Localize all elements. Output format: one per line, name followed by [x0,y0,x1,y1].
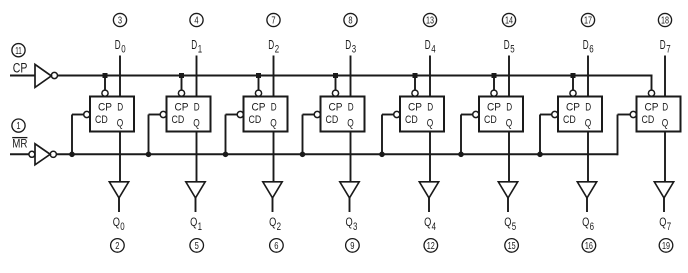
svg-text:CP: CP [252,101,266,113]
svg-text:CP: CP [98,101,112,113]
svg-text:4: 4 [194,16,198,27]
svg-text:CP: CP [175,101,189,113]
svg-text:Q: Q [585,117,592,129]
svg-text:18: 18 [661,16,669,27]
svg-text:5: 5 [510,44,514,56]
svg-text:9: 9 [350,241,354,252]
svg-text:6: 6 [274,241,278,252]
svg-text:Q: Q [504,215,511,229]
svg-text:12: 12 [427,241,435,252]
svg-text:CD: CD [249,114,262,126]
svg-text:Q: Q [424,215,431,229]
svg-text:11: 11 [15,46,22,57]
svg-text:1: 1 [16,121,20,132]
svg-text:D: D [662,101,668,113]
svg-text:5: 5 [195,241,199,252]
svg-text:CD: CD [642,114,655,126]
svg-text:16: 16 [585,241,593,252]
svg-text:D: D [583,37,589,52]
svg-text:D: D [425,37,431,52]
svg-text:15: 15 [508,241,516,252]
svg-text:6: 6 [590,221,594,233]
svg-text:2: 2 [115,241,119,252]
svg-text:D: D [191,37,197,52]
svg-text:CD: CD [95,114,108,126]
svg-text:CP: CP [329,101,343,113]
svg-text:Q: Q [346,215,353,229]
svg-text:4: 4 [432,221,436,233]
svg-text:CP: CP [408,101,422,113]
svg-text:D: D [348,101,354,113]
svg-text:5: 5 [512,221,516,233]
svg-text:6: 6 [589,44,593,56]
svg-text:Q: Q [427,117,434,129]
svg-text:CD: CD [172,114,185,126]
svg-text:CP: CP [13,60,28,75]
svg-text:8: 8 [348,16,352,27]
svg-text:CD: CD [484,114,497,126]
svg-text:0: 0 [121,44,125,56]
svg-text:19: 19 [662,241,670,252]
svg-text:0: 0 [120,221,124,233]
svg-text:CP: CP [487,101,501,113]
svg-text:D: D [117,101,123,113]
svg-text:MR: MR [12,136,27,150]
svg-text:13: 13 [426,16,434,27]
svg-text:Q: Q [582,215,589,229]
svg-text:D: D [506,101,512,113]
svg-text:CP: CP [566,101,580,113]
svg-text:D: D [585,101,591,113]
svg-text:Q: Q [193,117,200,129]
svg-text:Q: Q [117,117,124,129]
svg-text:Q: Q [659,215,666,229]
svg-text:CD: CD [563,114,576,126]
svg-text:D: D [427,101,433,113]
svg-text:1: 1 [198,221,202,233]
svg-text:2: 2 [275,44,279,56]
svg-text:D: D [345,37,351,52]
svg-text:17: 17 [584,16,592,27]
svg-text:3: 3 [353,221,357,233]
svg-text:CD: CD [405,114,418,126]
svg-text:CD: CD [326,114,339,126]
svg-text:D: D [268,37,274,52]
svg-text:4: 4 [431,44,435,56]
svg-text:D: D [660,37,666,52]
svg-text:7: 7 [271,16,275,27]
svg-text:Q: Q [662,117,669,129]
svg-text:Q: Q [270,117,277,129]
svg-text:7: 7 [666,44,670,56]
svg-text:3: 3 [352,44,356,56]
svg-text:D: D [115,37,121,52]
svg-text:Q: Q [506,117,513,129]
svg-text:Q: Q [269,215,276,229]
svg-text:D: D [194,101,200,113]
svg-text:CP: CP [645,101,659,113]
svg-text:Q: Q [347,117,354,129]
svg-text:1: 1 [198,44,202,56]
svg-text:3: 3 [118,16,122,27]
svg-text:2: 2 [277,221,281,233]
svg-text:D: D [271,101,277,113]
svg-text:7: 7 [667,221,671,233]
svg-text:Q: Q [190,215,197,229]
svg-text:Q: Q [113,215,120,229]
svg-text:14: 14 [505,16,513,27]
svg-text:D: D [504,37,510,52]
